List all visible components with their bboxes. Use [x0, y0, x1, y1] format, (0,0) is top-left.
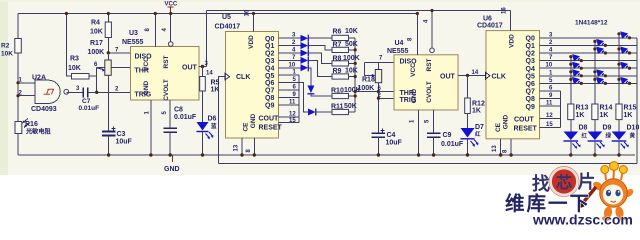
wire U6 Q7 stub (pin 6) to bracket	[540, 86, 561, 92]
svg-text:Q1: Q1	[265, 43, 274, 50]
wire DISO (pin 7)	[108, 52, 130, 54]
svg-text:13: 13	[492, 145, 498, 152]
VCC symbol	[165, 2, 178, 14]
svg-text:RESET: RESET	[259, 125, 283, 132]
svg-text:C3: C3	[117, 131, 126, 138]
svg-text:CD4017: CD4017	[215, 24, 241, 31]
wire U6 RESET stub (pin 15)	[540, 122, 561, 128]
svg-text:U4: U4	[395, 40, 404, 47]
wire U3 OUT (pin 3)	[199, 66, 207, 68]
svg-text:NE555: NE555	[387, 48, 409, 55]
wire U6 Q9 stub (pin 11)	[540, 101, 561, 107]
svg-text:U2A: U2A	[32, 75, 46, 82]
svg-text:10K: 10K	[1, 51, 13, 58]
svg-text:C8: C8	[174, 107, 183, 114]
svg-text:R10: R10	[331, 87, 344, 94]
diode on Q4 row	[301, 64, 309, 71]
wire U4 GND pin 1	[410, 110, 421, 157]
node U5 VDD at rail	[252, 12, 255, 15]
wire U5 Q7 stub (pin 6)	[279, 85, 299, 91]
svg-text:VDD: VDD	[509, 34, 516, 48]
svg-text:R8: R8	[333, 55, 342, 62]
wire resistor bus	[354, 38, 356, 112]
svg-text:Q3: Q3	[526, 58, 535, 65]
svg-text:Q1: Q1	[526, 43, 535, 50]
wire U6 VDD pin 16 from loop top	[510, 11, 512, 31]
svg-text:R11: R11	[331, 103, 344, 110]
resistor R13	[568, 104, 589, 132]
wire Q4 jog down	[308, 68, 311, 86]
svg-text:黄: 黄	[630, 132, 636, 140]
op-amp U3 NE555 box	[122, 30, 199, 101]
watermark mascot	[579, 162, 635, 221]
resistor R2	[1, 39, 21, 58]
wire left vertical (R2/R16 branch)	[17, 14, 19, 156]
svg-text:100K: 100K	[343, 55, 360, 62]
diode on Q0 row	[301, 35, 309, 42]
svg-text:14: 14	[206, 71, 213, 77]
svg-text:COUT: COUT	[259, 116, 280, 123]
svg-text:Q2: Q2	[265, 51, 274, 58]
LED D7	[461, 124, 485, 155]
svg-text:Q9: Q9	[526, 104, 535, 111]
wire U5 CE pin 13	[241, 138, 243, 155]
svg-text:12: 12	[546, 113, 553, 119]
svg-text:10: 10	[546, 63, 553, 69]
svg-text:U3: U3	[129, 30, 138, 37]
capacitor C3 (electrolytic)	[102, 127, 133, 156]
svg-text:NE555: NE555	[122, 39, 144, 46]
wire U6 Q6 row (pin 5)	[540, 78, 638, 84]
svg-text:Q0: Q0	[526, 35, 535, 42]
svg-text:VCC: VCC	[143, 57, 150, 71]
resistor R9	[332, 68, 358, 80]
LED D10 (yellow)	[612, 125, 640, 156]
svg-text:50K: 50K	[345, 41, 358, 48]
svg-text:Q6: Q6	[265, 80, 274, 87]
wire ground rail	[18, 154, 635, 156]
resistor R15	[616, 104, 637, 132]
svg-text:D7: D7	[475, 124, 484, 131]
wire pot bottom to C3	[108, 75, 110, 131]
node U3 pin8 at rail	[154, 12, 157, 15]
wire TRIG pin2 of U4	[378, 92, 394, 133]
scan background	[0, 0, 640, 175]
wire U6 Q2 row (pin 4)	[540, 48, 638, 54]
wire VCC rail	[18, 13, 417, 15]
diode matrix Q6 x colB	[593, 77, 607, 85]
svg-text:R7: R7	[333, 41, 342, 48]
wire DISO pin7 of U4	[365, 61, 394, 63]
wire U6 GND pin 8	[510, 139, 512, 155]
svg-text:CD4017: CD4017	[477, 23, 503, 30]
svg-text:R15: R15	[624, 105, 637, 112]
diode matrix Q6 x colC	[617, 77, 631, 85]
diode matrix Q2 x colB	[593, 47, 607, 55]
wire U5 Q6 stub (pin 5) jog to lower diode	[279, 77, 309, 112]
svg-text:15: 15	[546, 122, 553, 128]
wire U5 RESET stub (pin 15)	[279, 118, 299, 124]
svg-text:CE: CE	[495, 122, 502, 132]
node D6 at ground rail	[201, 153, 204, 156]
wire U5 Q3 stub (pin 7)	[279, 55, 301, 61]
svg-text:GND: GND	[143, 80, 150, 95]
svg-text:10uF: 10uF	[386, 140, 403, 147]
svg-text:D9: D9	[603, 125, 612, 132]
wire U6 Q3 row (pin 7)	[540, 55, 638, 61]
svg-text:13: 13	[234, 144, 240, 151]
wire U6 CE pin 13	[500, 139, 502, 155]
timer U4 NE555 box	[387, 40, 458, 110]
resistor R10	[331, 87, 361, 99]
node bus R9	[354, 75, 357, 78]
wire TRIG (pin 2)	[97, 91, 131, 93]
svg-text:Q5: Q5	[526, 73, 535, 80]
potentiometer R17	[88, 40, 120, 93]
wire U5 Q8 stub (pin 9)	[279, 92, 299, 98]
wire THR (pin 6)	[97, 68, 131, 77]
wire U6 COUT stub (pin 12)	[540, 113, 561, 119]
svg-text:Q2: Q2	[526, 51, 535, 58]
potentiometer R18	[358, 56, 384, 93]
svg-text:10K: 10K	[345, 68, 358, 75]
svg-text:1N4148*12: 1N4148*12	[575, 20, 608, 27]
svg-text:R4: R4	[91, 20, 100, 27]
wire U5 Q4 stub (pin 10)	[279, 62, 301, 68]
svg-text:16: 16	[245, 9, 251, 16]
svg-text:D10: D10	[627, 125, 640, 132]
resistor R12	[465, 75, 485, 128]
svg-text:1K: 1K	[624, 112, 633, 119]
node U2A pin2	[16, 94, 19, 97]
svg-text:VDD: VDD	[248, 35, 255, 49]
svg-text:U6: U6	[483, 16, 492, 23]
wire U6 Q8 stub (pin 9)	[540, 93, 561, 99]
wire U5 Q9 stub (pin 11)	[279, 99, 299, 105]
wire THR pin6 of U4	[355, 91, 394, 93]
svg-text:COUT: COUT	[514, 117, 535, 124]
svg-text:1K: 1K	[576, 112, 585, 119]
counter U6 CD4017 box	[477, 16, 540, 139]
svg-text:U5: U5	[222, 14, 231, 21]
resistor R5	[200, 67, 220, 123]
wire U6 Q0 row (pin 3)	[540, 32, 638, 38]
node R3 riser at rail	[65, 12, 68, 15]
svg-text:C4: C4	[387, 132, 396, 139]
svg-text:Q3: Q3	[265, 58, 274, 65]
wire matrix column C	[618, 34, 620, 104]
svg-text:11: 11	[289, 99, 296, 105]
svg-text:0.01uF: 0.01uF	[79, 105, 100, 112]
wire matrix column B	[594, 41, 596, 104]
svg-text:GND: GND	[411, 88, 418, 103]
svg-text:11: 11	[546, 101, 553, 107]
resistor R8	[332, 55, 360, 66]
svg-text:1K: 1K	[211, 87, 220, 94]
svg-text:Q0: Q0	[265, 36, 274, 43]
svg-text:10K: 10K	[90, 29, 103, 36]
svg-text:Q8: Q8	[265, 95, 274, 102]
svg-text:R2: R2	[1, 43, 10, 50]
wire U2A input stubs	[18, 83, 35, 96]
diode vertical on Q4 path	[307, 86, 314, 94]
diode matrix Q4 x colA	[569, 62, 583, 70]
svg-text:CVOLT: CVOLT	[163, 79, 170, 101]
svg-text:R9: R9	[333, 68, 342, 75]
wire U3 GND pin 1	[145, 100, 153, 157]
svg-text:GND: GND	[503, 114, 510, 129]
svg-text:GND: GND	[164, 166, 180, 173]
wire U5 Q5 stub (pin 1) to bracket	[279, 70, 299, 76]
svg-text:www.dzsc.com: www.dzsc.com	[532, 212, 633, 228]
diode matrix Q5 x colA	[569, 69, 583, 77]
svg-text:R3: R3	[70, 56, 79, 63]
diode on Q3 row	[301, 57, 309, 64]
wire U6 Q5 row (pin 1)	[540, 70, 638, 76]
wire CLK loop: top, left riser, bottom, right edge, riser to U5 CLK	[207, 11, 638, 164]
watermark stamp 找芯片	[532, 167, 596, 197]
svg-text:CLK: CLK	[236, 74, 250, 81]
node TRIG/C7 junction	[95, 91, 98, 94]
wire U5 bracket (pins 1,6,9,11,12,15)	[298, 75, 300, 122]
node C4 at rail	[377, 153, 380, 156]
diode matrix Q5 x colB	[593, 69, 607, 77]
svg-text:CD4093: CD4093	[31, 106, 57, 113]
diode matrix Q4 x colC	[617, 62, 631, 70]
wire Q1 jog to R7	[308, 46, 332, 50]
diode on Q6 path to R11	[308, 109, 332, 116]
wire U6 Q4 row (pin 10)	[540, 63, 638, 69]
diode matrix Q0 x colC	[617, 31, 631, 39]
wire U5 Q2 stub (pin 4)	[279, 48, 301, 54]
svg-text:蓝: 蓝	[211, 122, 217, 130]
diode on Q2 row	[301, 50, 309, 57]
node DISO junction	[107, 51, 110, 54]
svg-text:D8: D8	[579, 125, 588, 132]
node U3 OUT junction	[201, 65, 204, 68]
svg-text:Q4: Q4	[526, 66, 535, 73]
resistor R7	[332, 41, 358, 53]
svg-text:Q5: Q5	[265, 73, 274, 80]
svg-text:Q4: Q4	[265, 65, 274, 72]
capacitor C8 on CVOLT pin 5	[162, 100, 197, 155]
svg-text:VCC: VCC	[410, 63, 417, 77]
wire Q0 to R6	[308, 37, 332, 39]
svg-text:C9: C9	[443, 132, 452, 139]
wire R3 to THR/TRIG node	[89, 76, 97, 92]
capacitor C9 on U4 CVOLT pin 5	[425, 110, 464, 155]
svg-text:R16: R16	[25, 121, 38, 128]
diode matrix Q3 x colA	[569, 54, 583, 62]
svg-text:芯: 芯	[556, 173, 572, 192]
svg-text:10K: 10K	[68, 65, 81, 72]
capacitor C4 (electrolytic)	[372, 129, 403, 156]
diode matrix Q2 x colC	[617, 47, 631, 55]
svg-text:Q7: Q7	[265, 88, 274, 95]
svg-text:D6: D6	[208, 116, 217, 123]
svg-text:RESET: RESET	[514, 126, 538, 133]
LED D6	[197, 116, 218, 156]
svg-text:10: 10	[289, 62, 296, 68]
resistor R4	[90, 14, 111, 53]
LED D8 (red)	[564, 125, 588, 156]
wire U5 COUT stub (pin 12)	[279, 111, 299, 117]
svg-text:0.01uF: 0.01uF	[441, 141, 464, 148]
wire matrix column A	[570, 57, 572, 104]
svg-text:10K: 10K	[345, 28, 358, 35]
svg-text:找: 找	[532, 173, 550, 194]
node C3 at ground rail	[107, 153, 110, 156]
ground symbol GND	[164, 155, 180, 173]
wire Q3 jog to R9	[308, 60, 332, 76]
svg-text:0.01uF: 0.01uF	[174, 114, 197, 121]
node U2A pin1	[16, 81, 19, 84]
svg-text:100K: 100K	[358, 85, 375, 92]
svg-text:红: 红	[475, 130, 481, 138]
photoresistor R16	[15, 119, 52, 136]
diode on Q1 row	[301, 42, 309, 49]
node pot bottom on THR	[377, 90, 380, 93]
svg-text:CVOLT: CVOLT	[426, 81, 433, 103]
wire U5 GND pin 8	[253, 138, 255, 155]
svg-text:R18: R18	[362, 77, 375, 84]
diode matrix Q1 x colB	[593, 39, 607, 47]
svg-text:OUT: OUT	[440, 74, 456, 81]
wire U5 Q0 stub (pin 3)	[279, 33, 301, 39]
resistor R11	[331, 103, 357, 115]
resistor R14	[592, 104, 613, 132]
node TRIG junction	[377, 97, 380, 100]
node bus THR branch	[354, 90, 357, 93]
svg-text:R17: R17	[90, 40, 103, 47]
node C8 at rail	[169, 153, 172, 156]
svg-text:RST: RST	[426, 58, 433, 71]
svg-text:Q8: Q8	[526, 96, 535, 103]
wire Q2 jog to R8	[308, 53, 332, 63]
svg-text:绿: 绿	[606, 132, 612, 140]
wire U4 VCC pin 8	[416, 14, 418, 55]
gate U2A CD4093	[19, 75, 69, 114]
svg-text:R6: R6	[333, 28, 342, 35]
node bus R8	[354, 62, 357, 65]
diode matrix Q6 x colA	[569, 77, 583, 85]
svg-text:16: 16	[502, 7, 508, 14]
svg-text:1K: 1K	[600, 112, 609, 119]
svg-text:R5: R5	[211, 80, 220, 87]
svg-text:Q6: Q6	[526, 81, 535, 88]
wire U3 VCC pin 8	[154, 14, 156, 47]
svg-text:GND: GND	[250, 113, 257, 128]
wire U4 OUT (pin 3) to U6 CLK	[458, 74, 486, 76]
watermark: white strip below scan	[0, 175, 640, 227]
svg-text:RST: RST	[163, 55, 170, 68]
svg-text:光敏电阻: 光敏电阻	[25, 128, 52, 136]
svg-text:100K: 100K	[88, 49, 105, 56]
svg-text:CLK: CLK	[492, 74, 506, 81]
svg-text:红: 红	[582, 132, 588, 140]
wire U4 RST pin 4 with bubble	[424, 9, 435, 53]
wire U6 Q1 row (pin 2)	[540, 40, 638, 46]
wire U5 Q1 stub (pin 2)	[279, 40, 301, 46]
svg-text:1K: 1K	[472, 108, 481, 115]
LED D9 (green)	[588, 125, 612, 156]
svg-text:10uF: 10uF	[116, 139, 133, 146]
node bus R10	[354, 94, 357, 97]
svg-text:15: 15	[289, 118, 296, 124]
resistor R3	[68, 56, 89, 80]
node C9 at rail	[432, 153, 435, 156]
node bus R7	[354, 48, 357, 51]
svg-text:C7: C7	[82, 98, 91, 105]
node D7 at ground rail	[466, 153, 469, 156]
svg-text:R13: R13	[576, 105, 589, 112]
wire U3 RST pin 4 with bubble	[162, 12, 173, 46]
capacitor C7	[66, 86, 99, 112]
node R4 at rail	[107, 12, 110, 15]
resistor R6	[332, 28, 358, 41]
wire vertical diode to R10	[311, 94, 332, 96]
svg-text:Q7: Q7	[526, 89, 535, 96]
wire U5 VDD pin 16	[253, 14, 255, 32]
svg-text:R14: R14	[600, 105, 613, 112]
svg-text:12: 12	[289, 111, 296, 117]
svg-text:Q9: Q9	[265, 102, 274, 109]
counter U5 CD4017 box	[215, 14, 283, 138]
svg-text:OUT: OUT	[182, 65, 198, 72]
wire U6 bracket (pins 6,9,11,12,15)	[560, 91, 562, 128]
svg-text:CE: CE	[243, 122, 250, 132]
wire R3 riser from VCC rail	[66, 14, 71, 77]
svg-text:14: 14	[472, 70, 479, 76]
svg-text:R12: R12	[472, 101, 485, 108]
